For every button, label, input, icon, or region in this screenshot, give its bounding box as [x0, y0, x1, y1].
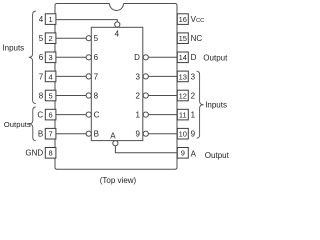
svg-text:Output: Output — [205, 151, 230, 160]
svg-text:VCC: VCC — [191, 15, 205, 24]
svg-text:2: 2 — [191, 91, 196, 100]
svg-text:8: 8 — [49, 149, 53, 158]
bubble C — [86, 112, 91, 117]
wire pin 6 — [56, 114, 86, 116]
svg-text:4: 4 — [49, 72, 53, 81]
wire pin 5 — [56, 95, 86, 97]
svg-text:8: 8 — [39, 91, 44, 100]
bubble B — [86, 131, 91, 136]
svg-text:B: B — [38, 130, 43, 139]
svg-text:NC: NC — [191, 34, 203, 43]
svg-text:15: 15 — [179, 34, 187, 43]
svg-text:7: 7 — [39, 72, 44, 81]
wire pin 13 — [148, 75, 177, 77]
pin 16 box — [177, 14, 188, 25]
svg-text:(Top view): (Top view) — [100, 176, 137, 185]
bubble 8 — [86, 93, 91, 98]
svg-text:C: C — [37, 111, 43, 120]
pin 5 box — [45, 90, 56, 101]
inverter bubble input 4 — [115, 22, 120, 27]
IC body outline — [55, 4, 177, 170]
svg-text:1: 1 — [135, 111, 140, 120]
svg-text:12: 12 — [179, 91, 187, 100]
svg-text:9: 9 — [181, 149, 185, 158]
bubble 5 — [86, 36, 91, 41]
svg-text:6: 6 — [39, 53, 44, 62]
pin 15 box — [177, 33, 188, 44]
wire pin 14 — [148, 56, 177, 58]
pin 9 box — [177, 148, 188, 159]
svg-text:2: 2 — [49, 34, 53, 43]
bubble 2 — [143, 93, 148, 98]
wire pin 4 — [56, 75, 86, 77]
svg-text:3: 3 — [135, 72, 140, 81]
svg-text:1: 1 — [49, 15, 53, 24]
bubble 7 — [86, 74, 91, 79]
wire pin 10 — [148, 133, 177, 135]
bubble 3 — [143, 74, 148, 79]
svg-text:Outputs: Outputs — [4, 120, 31, 129]
pin 12 box — [177, 90, 188, 101]
svg-text:16: 16 — [179, 15, 187, 24]
svg-text:C: C — [94, 111, 100, 120]
svg-text:D: D — [134, 53, 140, 62]
wire pin 2 — [56, 37, 86, 39]
svg-text:Output: Output — [203, 53, 228, 62]
pin 4 box — [45, 71, 56, 82]
svg-text:2: 2 — [135, 91, 140, 100]
svg-text:Inputs: Inputs — [205, 101, 227, 110]
svg-text:4: 4 — [39, 15, 44, 24]
wire output A to pin 9 — [115, 146, 177, 153]
brace inputs left — [29, 11, 36, 104]
svg-text:11: 11 — [179, 111, 187, 120]
wire pin 11 — [148, 114, 177, 116]
pin 11 box — [177, 109, 188, 120]
brace inputs right — [197, 71, 204, 138]
svg-text:6: 6 — [49, 111, 53, 120]
wire pin1 to input 4 — [56, 20, 117, 22]
pin 3 box — [45, 52, 56, 63]
pin 7 box — [45, 128, 56, 139]
pin 6 box — [45, 109, 56, 120]
svg-text:GND: GND — [25, 149, 43, 158]
svg-text:9: 9 — [191, 130, 196, 139]
svg-text:A: A — [110, 132, 116, 141]
svg-text:7: 7 — [49, 130, 53, 139]
svg-text:3: 3 — [49, 53, 53, 62]
svg-text:8: 8 — [94, 91, 99, 100]
svg-text:Inputs: Inputs — [2, 43, 24, 52]
pin 1 box — [45, 14, 56, 25]
svg-text:5: 5 — [94, 34, 99, 43]
svg-text:D: D — [191, 53, 197, 62]
bubble 1 — [143, 112, 148, 117]
svg-text:9: 9 — [135, 130, 140, 139]
wire pin 3 — [56, 56, 86, 58]
pin 2 box — [45, 33, 56, 44]
svg-text:10: 10 — [179, 130, 187, 139]
wire pin 12 — [148, 95, 177, 97]
svg-text:A: A — [191, 150, 197, 159]
svg-text:4: 4 — [115, 30, 120, 39]
bubble 9 — [143, 131, 148, 136]
svg-text:5: 5 — [39, 34, 44, 43]
brace outputs left — [29, 107, 36, 141]
function block — [91, 27, 143, 140]
pin 8 box — [45, 148, 56, 159]
svg-text:6: 6 — [94, 53, 99, 62]
bubble D — [143, 55, 148, 60]
svg-text:14: 14 — [179, 53, 187, 62]
svg-text:3: 3 — [191, 72, 196, 81]
bubble 6 — [86, 55, 91, 60]
pin 13 box — [177, 71, 188, 82]
svg-text:13: 13 — [179, 72, 187, 81]
svg-text:1: 1 — [191, 111, 196, 120]
index notch — [110, 4, 124, 11]
pin 10 box — [177, 128, 188, 139]
pin 14 box — [177, 52, 188, 63]
svg-text:7: 7 — [94, 72, 99, 81]
svg-text:B: B — [94, 130, 99, 139]
svg-text:5: 5 — [49, 91, 53, 100]
bubble A — [113, 141, 118, 146]
wire pin 7 — [56, 133, 86, 135]
